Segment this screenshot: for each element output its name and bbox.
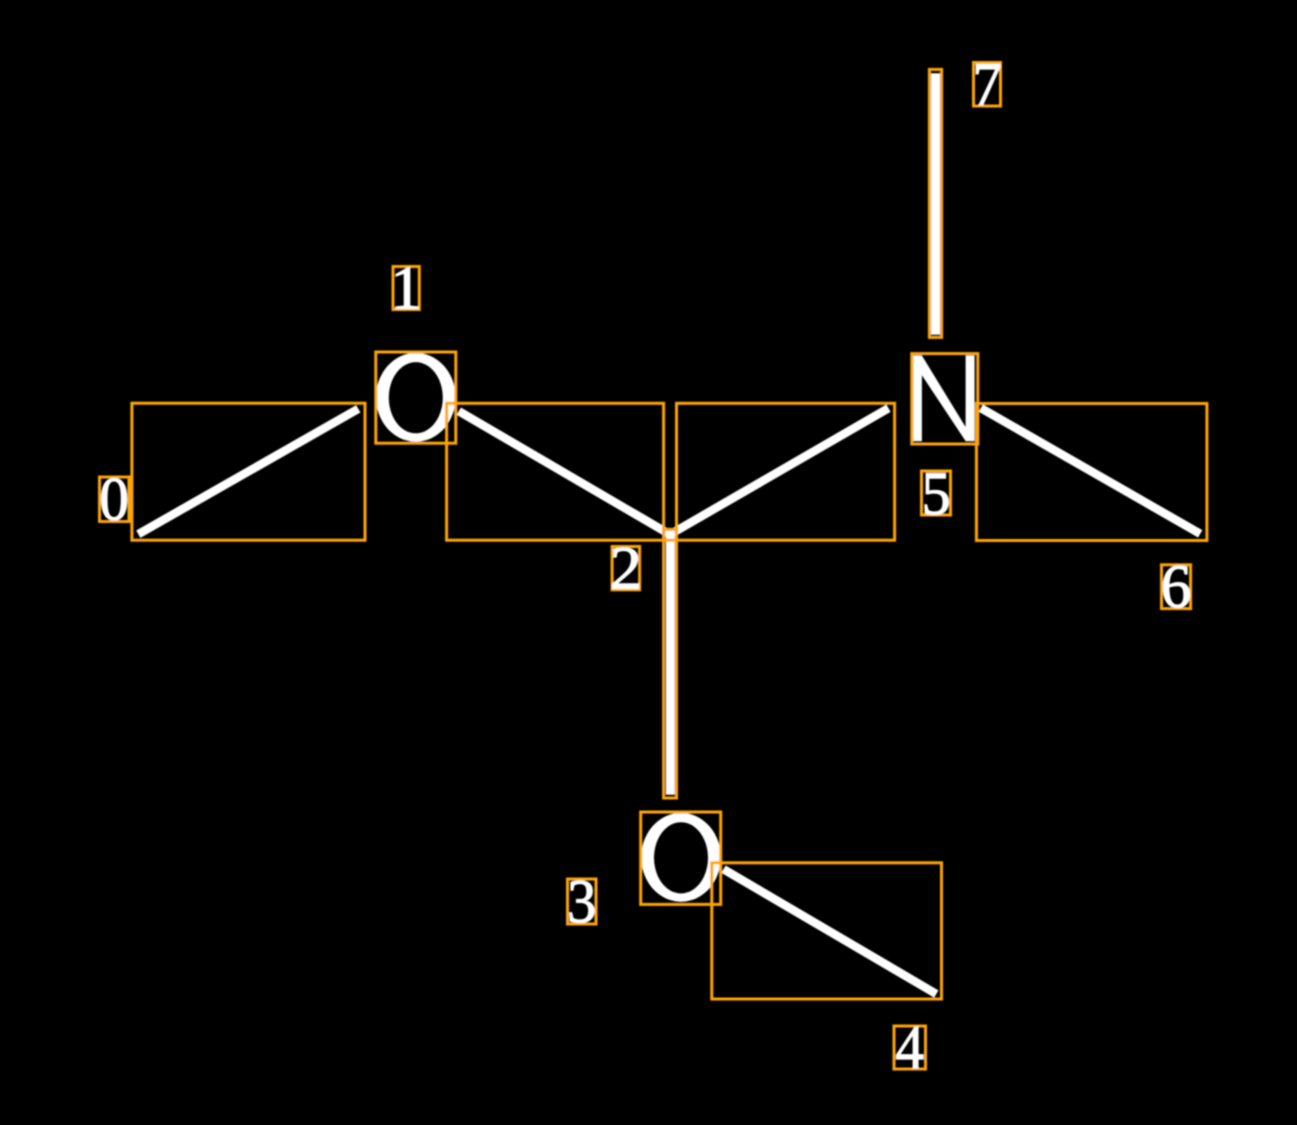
svg-text:1: 1 — [390, 256, 422, 323]
label 6 — [1161, 554, 1192, 621]
svg-text:0: 0 — [99, 467, 129, 534]
bond 5-7 (N up to CH3, vertical) — [931, 73, 940, 335]
label 3 — [567, 869, 596, 936]
atom O1 letter — [376, 353, 456, 442]
label 1 — [390, 256, 422, 323]
atom O3 letter — [641, 813, 721, 902]
bbox atom 5 (N) — [912, 354, 978, 444]
bond 0-1 (CH3 to O, up-right diagonal) — [138, 409, 358, 534]
bond 3-4 (O to CH3, down-right diagonal) — [724, 869, 937, 994]
svg-text:4: 4 — [895, 1015, 924, 1082]
label 7 — [972, 52, 1001, 119]
svg-text:2: 2 — [610, 536, 642, 603]
bbox bond 0-1 — [132, 403, 365, 540]
label 4 — [894, 1015, 926, 1082]
svg-text:6: 6 — [1161, 554, 1192, 621]
atom N5 letter — [913, 355, 975, 441]
bond 2-3 (C down to O, vertical) — [666, 530, 675, 795]
svg-text:3: 3 — [567, 869, 596, 936]
svg-text:7: 7 — [972, 52, 1001, 119]
label 0 — [99, 467, 129, 534]
bbox atom 3 (O) — [641, 812, 721, 904]
bbox bond 2-5 — [677, 403, 895, 540]
label 5 — [921, 461, 950, 528]
bbox bond 5-6 — [976, 404, 1207, 541]
svg-text:5: 5 — [921, 461, 950, 528]
bbox atom 2 (C vertex) — [664, 529, 677, 540]
bbox bond 1-2 — [447, 403, 664, 540]
bbox bond 5-7 — [929, 69, 941, 337]
bbox bond 2-3 — [664, 529, 677, 798]
bond 5-6 (N to CH3, down-right diagonal) — [981, 408, 1200, 534]
bbox atom 1 (O) — [376, 352, 456, 443]
bond 2-5 (C to N, up-right diagonal) — [670, 408, 889, 534]
bond 1-2 (O to C, down-right diagonal) — [459, 411, 670, 534]
bbox bond 3-4 — [712, 863, 942, 999]
label 2 — [610, 536, 642, 603]
